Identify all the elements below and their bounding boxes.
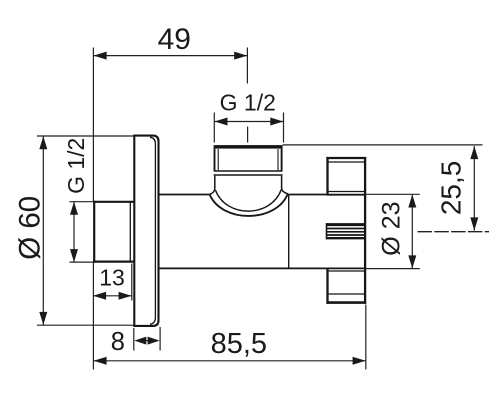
dimension Ø 23	[367, 194, 420, 268]
dimension G 1/2 top	[214, 113, 283, 143]
dimension 25,5	[283, 145, 483, 231]
dimension 13	[93, 263, 132, 370]
wall flange (rosette)	[134, 136, 158, 326]
handle knob bottom disc	[326, 268, 366, 303]
dimension Ø 60	[37, 136, 134, 325]
dimension 49	[93, 48, 247, 202]
valve body (horizontal cylinder)	[159, 195, 327, 269]
svg-text:G 1/2: G 1/2	[220, 90, 276, 116]
handle knurled grip ribs	[326, 223, 364, 239]
svg-text:25,5: 25,5	[435, 161, 466, 216]
svg-text:85,5: 85,5	[211, 328, 267, 360]
svg-text:13: 13	[99, 265, 125, 291]
handle knob top disc	[326, 157, 366, 195]
svg-text:8: 8	[111, 328, 125, 356]
axis centerline	[418, 231, 490, 233]
bonnet edge	[288, 195, 290, 268]
svg-text:G 1/2: G 1/2	[63, 138, 89, 194]
handle knob right edge	[364, 157, 366, 304]
port centerline tick	[247, 127, 249, 143]
dimension 8	[134, 327, 160, 351]
svg-text:Ø 60: Ø 60	[13, 196, 46, 260]
saddle fillet where port meets body	[210, 186, 288, 216]
dimension G 1/2 left	[70, 202, 94, 263]
svg-text:Ø 23: Ø 23	[377, 201, 405, 255]
dimension 85,5	[93, 305, 365, 370]
svg-text:49: 49	[158, 23, 191, 56]
square wall connector	[93, 201, 134, 263]
top port (G 1/2 thread)	[214, 145, 283, 186]
